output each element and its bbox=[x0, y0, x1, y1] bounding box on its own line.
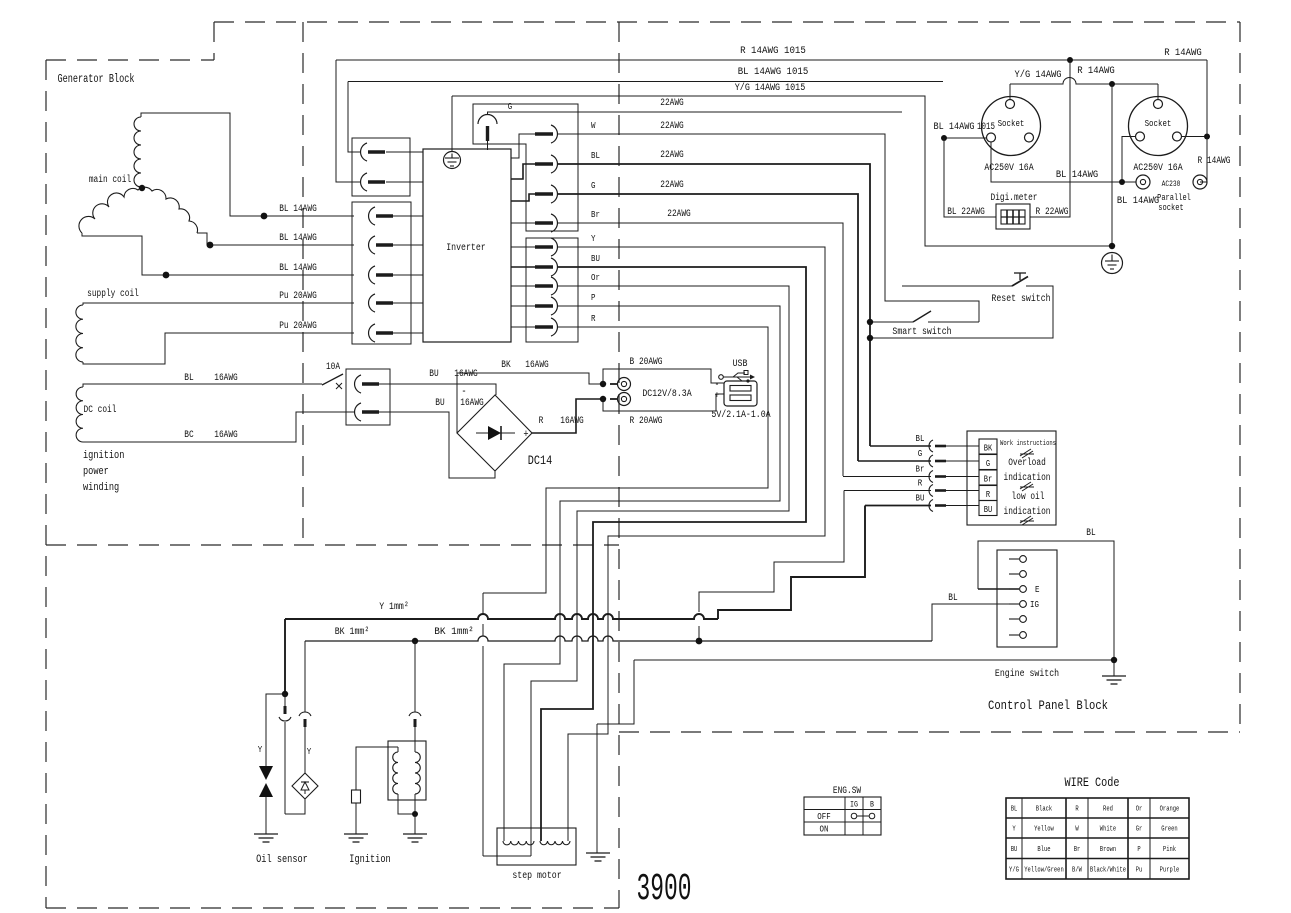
svg-text:Br: Br bbox=[1074, 846, 1081, 854]
svg-text:Y/G 14AWG 1015: Y/G 14AWG 1015 bbox=[735, 82, 806, 94]
engine switch terminal 5 bbox=[1009, 618, 1019, 620]
indicator arrow BL bbox=[929, 440, 933, 452]
svg-text:R: R bbox=[918, 478, 923, 489]
connector L2-2 bbox=[369, 236, 375, 254]
svg-text:Ignition: Ignition bbox=[349, 854, 390, 866]
node ignition ground joint bbox=[412, 811, 418, 817]
svg-text:ON: ON bbox=[820, 824, 829, 835]
svg-text:BU: BU bbox=[1011, 846, 1018, 854]
node socket2 BL junction bbox=[1119, 179, 1125, 185]
svg-text:E: E bbox=[1035, 584, 1040, 595]
svg-text:BL 22AWG: BL 22AWG bbox=[947, 207, 985, 218]
svg-text:Or: Or bbox=[591, 272, 600, 283]
connector R-W bbox=[535, 132, 553, 135]
engine switch terminal 2 bbox=[1009, 573, 1019, 575]
node smart switch a bbox=[867, 319, 873, 325]
connector R-Y bbox=[535, 245, 553, 248]
socket J2 earth pin bbox=[1154, 100, 1163, 109]
svg-text:BL 14AWG: BL 14AWG bbox=[279, 204, 317, 215]
socket J2 body bbox=[1129, 97, 1188, 156]
svg-text:22AWG: 22AWG bbox=[660, 180, 684, 191]
connector L1-1 bbox=[361, 143, 367, 161]
wire socket2 left pin down to BL bbox=[1122, 137, 1136, 183]
connector R-Or bbox=[535, 284, 553, 287]
wire Y 22AWG to step motor bbox=[558, 247, 825, 841]
connector R-P bbox=[535, 304, 553, 307]
svg-text:step motor: step motor bbox=[512, 870, 561, 882]
svg-text:Yellow: Yellow bbox=[1034, 826, 1054, 834]
socket J1 right pin bbox=[1025, 133, 1034, 142]
svg-text:Orange: Orange bbox=[1160, 806, 1180, 814]
connector R-G bbox=[535, 192, 553, 195]
indicator terminal BK bbox=[979, 439, 997, 454]
svg-text:G: G bbox=[986, 459, 990, 469]
connector L2-4 bbox=[369, 294, 375, 312]
ignition connector bbox=[414, 641, 416, 712]
node socket2 R junction bbox=[1204, 134, 1210, 140]
wire DC coil bottom BC 16AWG bbox=[83, 412, 354, 442]
svg-text:Br: Br bbox=[984, 475, 993, 485]
svg-text:Or: Or bbox=[1136, 806, 1143, 814]
wire BL 1015 riser to connector L1-1 bbox=[348, 82, 361, 153]
svg-text:socket: socket bbox=[1158, 203, 1183, 213]
connector R-R bbox=[535, 325, 553, 328]
connector R-Br bbox=[535, 221, 553, 224]
dashed divider vertical x619 bbox=[618, 22, 620, 908]
main coil vertical winding bbox=[134, 117, 141, 187]
stub L1-2 to inverter bbox=[386, 181, 423, 183]
USB socket bbox=[724, 381, 757, 406]
svg-text:P: P bbox=[1137, 846, 1140, 854]
zener pair bottom triangle bbox=[259, 783, 273, 797]
step motor coil B bbox=[540, 841, 570, 845]
LED symbol 2 bbox=[1020, 482, 1034, 491]
svg-text:-: - bbox=[715, 380, 720, 391]
svg-text:DC14: DC14 bbox=[528, 453, 553, 468]
oil sensor connector a bbox=[284, 694, 286, 706]
indicator wires left risers bbox=[843, 476, 931, 478]
diode inside rectifier bbox=[476, 432, 515, 434]
svg-text:DC coil: DC coil bbox=[84, 404, 117, 416]
svg-text:Br: Br bbox=[591, 209, 600, 220]
svg-text:B/W: B/W bbox=[1072, 866, 1083, 874]
wire R 20AWG to USB plus bbox=[603, 394, 724, 411]
svg-text:Digi.meter: Digi.meter bbox=[991, 192, 1038, 204]
svg-text:16AWG: 16AWG bbox=[460, 398, 484, 409]
wire BL to socket1 left pin bbox=[944, 137, 987, 139]
wire BU 22AWG thick to step motor bbox=[541, 267, 806, 841]
svg-text:Generator Block: Generator Block bbox=[58, 73, 135, 86]
generator block dashed border left bbox=[45, 60, 47, 908]
svg-text:BL 14AWG: BL 14AWG bbox=[934, 122, 975, 133]
wire E to loop bbox=[978, 588, 1019, 590]
wire R 14AWG 1015 top bbox=[336, 59, 1207, 61]
svg-text:winding: winding bbox=[83, 482, 119, 494]
wire DC coil top BL 16AWG to fuse bbox=[83, 384, 322, 387]
svg-text:Pu 20AWG: Pu 20AWG bbox=[279, 291, 317, 302]
ignition ground 1 bbox=[344, 833, 368, 835]
wire to zener pair bbox=[266, 694, 285, 766]
wire IG BL to BK bus bbox=[932, 604, 1020, 641]
svg-text:Blue: Blue bbox=[1037, 846, 1050, 854]
svg-text:Pu 20AWG: Pu 20AWG bbox=[279, 321, 317, 332]
connector L2-3 bbox=[369, 266, 375, 284]
dashed divider vertical x303 bbox=[302, 22, 304, 545]
indicator arrow G bbox=[929, 455, 933, 467]
svg-text:Pink: Pink bbox=[1163, 846, 1176, 854]
svg-text:Work instructions: Work instructions bbox=[1000, 440, 1056, 448]
connector L2-1 bbox=[369, 207, 375, 225]
step motor coil A bbox=[503, 841, 534, 845]
svg-text:ENG.SW: ENG.SW bbox=[833, 786, 861, 797]
main earth symbol bbox=[1102, 253, 1123, 274]
svg-text:BL: BL bbox=[1086, 528, 1095, 539]
svg-text:BK 1mm²: BK 1mm² bbox=[434, 626, 474, 638]
node tap A bbox=[261, 213, 268, 220]
svg-text:Y/G 14AWG: Y/G 14AWG bbox=[1015, 69, 1062, 81]
svg-text:Overload: Overload bbox=[1008, 457, 1046, 469]
wire socket2 right pin to R bbox=[1181, 136, 1207, 138]
wire R 14AWG right drop bbox=[1200, 60, 1207, 182]
left connector box 1 bbox=[352, 138, 410, 196]
ignition secondary coil bbox=[415, 752, 420, 794]
socket J1 left pin bbox=[987, 133, 996, 142]
svg-text:USB: USB bbox=[733, 358, 748, 370]
connector L2-5 bbox=[369, 324, 375, 342]
svg-text:G: G bbox=[508, 101, 513, 112]
inverter earth symbol bbox=[444, 152, 461, 169]
svg-text:AC230: AC230 bbox=[1162, 180, 1181, 189]
svg-text:-: - bbox=[461, 386, 466, 398]
socket J1 body bbox=[982, 97, 1041, 156]
svg-text:+: + bbox=[715, 391, 720, 402]
node R wire top bbox=[1067, 57, 1073, 63]
ignition ground 2 bbox=[403, 833, 427, 835]
svg-text:3900: 3900 bbox=[637, 868, 692, 911]
svg-text:BU: BU bbox=[984, 505, 993, 515]
stub connector to inverter bbox=[393, 215, 423, 217]
svg-text:R: R bbox=[539, 416, 544, 427]
svg-text:22AWG: 22AWG bbox=[660, 150, 684, 161]
wire BK 1mm2 bus bbox=[305, 636, 932, 641]
svg-text:Br: Br bbox=[916, 464, 925, 475]
spark plug bbox=[352, 790, 361, 803]
stub L1-1 to inverter bbox=[386, 151, 423, 153]
wire P 22AWG to step motor bbox=[504, 306, 780, 841]
svg-text:Red: Red bbox=[1103, 806, 1113, 814]
svg-text:Green: Green bbox=[1161, 826, 1177, 834]
ignition coil bottom loop bbox=[398, 794, 415, 814]
node DC minus bbox=[600, 381, 606, 387]
inverter box U1 bbox=[423, 149, 511, 342]
ignition coil box bbox=[388, 741, 426, 800]
svg-text:22AWG: 22AWG bbox=[667, 209, 691, 220]
svg-text:BL 14AWG: BL 14AWG bbox=[1117, 196, 1159, 207]
LED symbol 1 bbox=[1020, 449, 1034, 458]
wire earth bus to socket tops bbox=[1010, 78, 1158, 84]
indicator terminal G bbox=[979, 455, 997, 470]
svg-text:Black/White: Black/White bbox=[1090, 866, 1126, 874]
wire W 22AWG bbox=[558, 134, 979, 322]
connector R-BL bbox=[535, 162, 553, 165]
svg-text:16AWG: 16AWG bbox=[214, 373, 238, 384]
socket J1 earth pin bbox=[1006, 100, 1015, 109]
indicator arrow R bbox=[929, 485, 933, 497]
wire R 16AWG rectifier plus to DC output bbox=[532, 399, 603, 433]
svg-text:AC250V 16A: AC250V 16A bbox=[1133, 162, 1183, 174]
stub connector to inverter bbox=[393, 244, 423, 246]
engine block ground rail bbox=[634, 659, 1114, 661]
wire BU 16AWG upper to rectifier bbox=[379, 384, 496, 395]
generator block dashed border left step bbox=[213, 22, 215, 60]
svg-text:Engine switch: Engine switch bbox=[995, 668, 1059, 680]
svg-text:supply coil: supply coil bbox=[87, 288, 139, 300]
svg-text:Inverter: Inverter bbox=[446, 242, 486, 254]
svg-text:R: R bbox=[591, 313, 596, 324]
left connector box 2 bbox=[352, 202, 411, 344]
wire Y 1mm2 thick bus bbox=[285, 614, 718, 619]
node BL socket1 bbox=[941, 135, 947, 141]
wire R 22AWG from meter bbox=[1030, 60, 1070, 217]
node BK ignition tap bbox=[412, 638, 418, 644]
reset switch bbox=[902, 285, 1012, 287]
svg-text:Yellow/Green: Yellow/Green bbox=[1024, 866, 1064, 874]
svg-text:WIRE Code: WIRE Code bbox=[1065, 775, 1120, 790]
wire BL 22AWG thick bbox=[558, 164, 870, 446]
stub connector to inverter bbox=[393, 332, 423, 334]
svg-text:Gr: Gr bbox=[1136, 826, 1143, 834]
wire diamond bottom loop bbox=[285, 799, 305, 814]
svg-text:Pu: Pu bbox=[1136, 866, 1143, 874]
ENG.SW contact symbol bbox=[851, 813, 857, 819]
wire BL 22AWG to meter bbox=[944, 138, 996, 217]
stub connector to inverter bbox=[393, 302, 423, 304]
svg-text:Purple: Purple bbox=[1160, 866, 1180, 874]
dashed border right bbox=[1239, 22, 1241, 732]
svg-text:+: + bbox=[523, 429, 528, 441]
generator block dashed border top bbox=[214, 21, 1240, 23]
node main coil star point bbox=[139, 185, 145, 191]
wire main coil tap B to connector bbox=[197, 233, 354, 245]
connector DC-1 bbox=[355, 375, 361, 393]
wire G 22AWG thick to indicator bbox=[558, 194, 858, 461]
fuse switch 10A bbox=[322, 374, 343, 385]
wire Y/G 14AWG 1015 earth bbox=[451, 96, 453, 152]
right connector box 2 bbox=[526, 238, 578, 342]
wire BU indicator thick from Y wire bbox=[865, 505, 931, 507]
node earth bus bbox=[1109, 81, 1115, 87]
engine switch terminal 1 bbox=[1009, 558, 1019, 560]
inverter stubs to right connectors bbox=[511, 134, 535, 158]
svg-text:BL: BL bbox=[1011, 806, 1018, 814]
svg-text:16AWG: 16AWG bbox=[214, 430, 238, 441]
svg-text:Control Panel Block: Control Panel Block bbox=[988, 698, 1108, 713]
connector R-BU bbox=[535, 265, 553, 268]
svg-text:Y: Y bbox=[591, 233, 596, 244]
svg-text:G: G bbox=[591, 180, 596, 191]
engine switch terminal 4 bbox=[1009, 603, 1019, 605]
svg-text:10A: 10A bbox=[326, 362, 340, 373]
digital meter bbox=[996, 204, 1030, 229]
svg-text:BL: BL bbox=[591, 150, 600, 161]
engine ground symbol bbox=[1113, 660, 1115, 676]
connector DC-2 bbox=[355, 403, 361, 421]
step motor ground bbox=[586, 852, 610, 854]
svg-text:BU: BU bbox=[435, 398, 444, 409]
svg-text:22AWG: 22AWG bbox=[660, 121, 684, 132]
wire BL 14AWG 1015 bbox=[348, 81, 943, 83]
svg-text:22AWG: 22AWG bbox=[660, 98, 684, 109]
main coil arch winding bbox=[79, 187, 198, 233]
wire spark plug lead bbox=[356, 747, 398, 790]
svg-text:BL: BL bbox=[184, 373, 193, 384]
engine switch terminal 3 bbox=[1009, 588, 1019, 590]
wire Br 22AWG to indicator bbox=[558, 223, 843, 476]
oil sensor ground 1 bbox=[254, 833, 278, 835]
svg-text:DC12V/8.3A: DC12V/8.3A bbox=[642, 388, 692, 400]
right connector box 1 outline bbox=[473, 104, 578, 231]
engine switch inner box bbox=[997, 550, 1057, 647]
svg-text:BK: BK bbox=[984, 444, 993, 454]
wire R indicator staircase from BK junction bbox=[844, 490, 931, 492]
step motor box bbox=[497, 828, 576, 865]
svg-text:R: R bbox=[986, 490, 991, 500]
svg-text:Socket: Socket bbox=[1145, 118, 1172, 129]
indicator arrow BU bbox=[929, 500, 933, 512]
wire earth bus drop to ground bbox=[1111, 84, 1113, 246]
supply coil winding bbox=[76, 305, 83, 362]
engine switch outer loop BL bbox=[978, 541, 1114, 660]
wire G 22AWG from G connector bbox=[488, 112, 903, 115]
svg-text:Smart switch: Smart switch bbox=[892, 326, 951, 338]
wire main coil tap C to connector bbox=[82, 233, 354, 275]
wire supply coil bottom Pu 20AWG bbox=[83, 333, 354, 364]
node tap B bbox=[207, 242, 214, 249]
dashed divider horizontal y545 bbox=[46, 544, 619, 546]
svg-text:B 20AWG: B 20AWG bbox=[630, 357, 663, 368]
svg-text:main coil: main coil bbox=[89, 174, 131, 186]
wire BL 14AWG to parallel socket bbox=[991, 142, 1136, 182]
svg-text:R 14AWG 1015: R 14AWG 1015 bbox=[740, 46, 806, 57]
svg-text:P: P bbox=[591, 292, 596, 303]
svg-text:Y: Y bbox=[307, 746, 312, 757]
svg-text:White: White bbox=[1100, 826, 1116, 834]
DC output terminal minus bbox=[618, 378, 631, 391]
svg-text:Reset switch: Reset switch bbox=[991, 293, 1050, 305]
node earth ground joint bbox=[1109, 243, 1115, 249]
indicator terminal BU bbox=[979, 501, 997, 516]
DC connector box bbox=[346, 369, 390, 425]
svg-text:W: W bbox=[591, 120, 596, 131]
svg-text:R 20AWG: R 20AWG bbox=[630, 416, 663, 427]
ignition primary coil bbox=[393, 752, 398, 794]
oil sensor connector b bbox=[304, 641, 306, 712]
parallel socket terminal left bbox=[1136, 175, 1150, 189]
indicator terminal Br bbox=[979, 470, 997, 485]
DC coil winding bbox=[76, 387, 83, 442]
oil sensor diode diamond bbox=[292, 773, 318, 799]
svg-text:Socket: Socket bbox=[998, 118, 1025, 129]
connector L1-2 bbox=[361, 173, 367, 191]
svg-text:BL 14AWG: BL 14AWG bbox=[279, 263, 317, 274]
svg-text:indication: indication bbox=[1004, 472, 1051, 484]
wire zener to ground bbox=[265, 797, 267, 834]
svg-text:B: B bbox=[870, 800, 874, 810]
socket J2 left pin bbox=[1136, 132, 1145, 141]
svg-text:Y 1mm²: Y 1mm² bbox=[379, 601, 409, 613]
svg-text:R 14AWG: R 14AWG bbox=[1077, 66, 1115, 77]
socket J2 right pin bbox=[1173, 132, 1182, 141]
svg-text:BL 14AWG 1015: BL 14AWG 1015 bbox=[738, 67, 809, 78]
wire supply coil top Pu 20AWG bbox=[83, 303, 354, 305]
node oil sensor junction bbox=[282, 691, 288, 697]
step motor ground stem bbox=[596, 724, 598, 853]
wire Y bus left drop bbox=[284, 619, 286, 694]
svg-text:R 14AWG: R 14AWG bbox=[1198, 156, 1231, 167]
smart switch bbox=[870, 321, 913, 323]
svg-text:16AWG: 16AWG bbox=[454, 369, 478, 380]
wire main coil tap A to connector bbox=[141, 113, 354, 216]
parallel socket terminal right bbox=[1193, 175, 1207, 189]
wire BK 16AWG rectifier minus to DC output bbox=[457, 373, 603, 433]
svg-text:Black: Black bbox=[1036, 806, 1052, 814]
svg-text:IG: IG bbox=[1030, 599, 1039, 610]
node engine ground bbox=[1111, 657, 1117, 663]
stub connector to inverter bbox=[393, 274, 423, 276]
USB trident icon bbox=[719, 375, 724, 380]
bridge rectifier DC14 diamond bbox=[457, 395, 532, 471]
engine switch terminal 6 bbox=[1009, 634, 1019, 636]
svg-text:IG: IG bbox=[850, 800, 858, 810]
svg-text:low oil: low oil bbox=[1012, 491, 1045, 503]
svg-text:BC: BC bbox=[184, 430, 193, 441]
svg-text:16AWG: 16AWG bbox=[560, 416, 584, 427]
node DC plus bbox=[600, 396, 606, 402]
node BK staircase junction bbox=[696, 638, 703, 645]
svg-text:BL 14AWG: BL 14AWG bbox=[279, 233, 317, 244]
control panel block dashed bottom bbox=[619, 731, 1240, 733]
svg-text:Brown: Brown bbox=[1100, 846, 1116, 854]
wire B 20AWG to USB minus bbox=[603, 369, 724, 384]
indicator arrow Br bbox=[929, 471, 933, 483]
svg-text:BL: BL bbox=[948, 593, 957, 604]
svg-text:5V/2.1A-1.0A: 5V/2.1A-1.0A bbox=[711, 409, 771, 421]
svg-text:Parallel: Parallel bbox=[1157, 193, 1191, 203]
svg-text:indication: indication bbox=[1004, 506, 1051, 518]
svg-text:R 14AWG: R 14AWG bbox=[1164, 48, 1202, 59]
svg-text:Y: Y bbox=[258, 744, 263, 755]
DC output terminal plus bbox=[618, 393, 631, 406]
svg-text:1015: 1015 bbox=[977, 122, 995, 133]
node smart switch b bbox=[867, 335, 873, 341]
svg-text:BL: BL bbox=[916, 433, 925, 444]
svg-text:BU: BU bbox=[591, 253, 600, 264]
svg-text:BU: BU bbox=[429, 369, 438, 380]
svg-text:AC250V 16A: AC250V 16A bbox=[984, 162, 1034, 174]
svg-text:OFF: OFF bbox=[817, 811, 831, 822]
svg-text:16AWG: 16AWG bbox=[525, 360, 549, 371]
svg-text:BU: BU bbox=[916, 493, 925, 504]
wire BU 16AWG lower to rectifier bbox=[379, 412, 495, 478]
wire R 22AWG to step motor bbox=[483, 327, 768, 593]
svg-text:Y/G: Y/G bbox=[1009, 866, 1019, 874]
indicator terminal R bbox=[979, 486, 997, 501]
zener pair top triangle bbox=[259, 766, 273, 780]
svg-text:BK 1mm²: BK 1mm² bbox=[335, 626, 370, 638]
wire R 1015 riser to connector L1-2 bbox=[336, 60, 361, 182]
LED symbol 3 bbox=[1020, 516, 1034, 525]
indicator block box bbox=[967, 431, 1056, 525]
